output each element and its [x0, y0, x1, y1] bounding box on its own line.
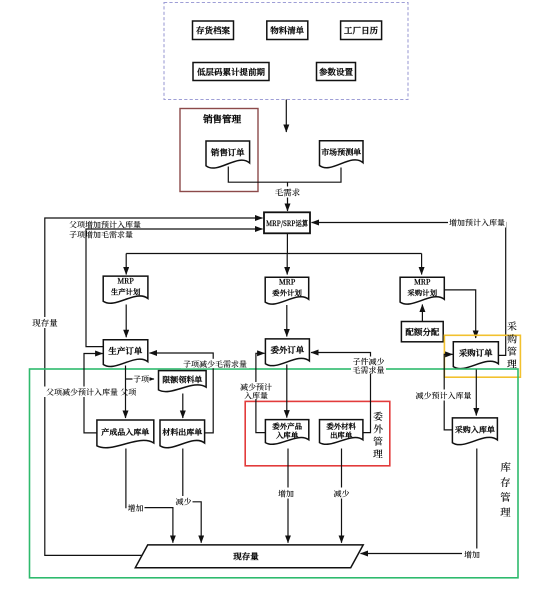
svg-text:MRP: MRP — [117, 277, 135, 287]
svg-text:增加预计入库量: 增加预计入库量 — [449, 218, 505, 229]
label 减少 — [175, 496, 193, 508]
svg-text:销售订单: 销售订单 — [210, 147, 246, 159]
wire: 采购入库单 down to 现存量 (增加) — [361, 449, 477, 554]
document 生产订单 — [103, 340, 148, 367]
svg-text:销售管理: 销售管理 — [203, 112, 242, 126]
svg-text:工厂日历: 工厂日历 — [344, 25, 379, 37]
svg-text:MRP: MRP — [279, 278, 297, 288]
document 委外材料出库单 — [320, 420, 363, 445]
box 低层码累计提前期 — [193, 63, 269, 81]
document MRP生产计划 — [103, 276, 148, 303]
process box MRP/SRP运算 — [264, 212, 310, 233]
label 减少预计 入库量 — [239, 382, 275, 402]
document 材料出库单 — [160, 420, 205, 448]
wire: plan to production order — [125, 305, 127, 338]
wire: purchase order down to purchase receipt — [475, 370, 477, 416]
svg-text:限额领料单: 限额领料单 — [162, 375, 202, 386]
green inventory group box — [30, 369, 519, 578]
svg-text:增加: 增加 — [464, 550, 480, 561]
document 采购订单 — [453, 342, 498, 369]
svg-text:MRP/SRP运算: MRP/SRP运算 — [266, 218, 308, 229]
document 委外订单 — [265, 339, 309, 366]
parallelogram 现存量 — [135, 545, 363, 568]
svg-text:物料清单: 物料清单 — [270, 25, 305, 37]
svg-text:生产计划: 生产计划 — [110, 288, 141, 298]
svg-text:存: 存 — [500, 475, 511, 490]
document 销售订单 — [206, 141, 250, 168]
document 市场预测单 — [320, 141, 364, 168]
wire: plan to outsourcing order — [286, 305, 288, 337]
wire: purchase receipt feedback to purchase order (减少预计入库量) — [444, 354, 452, 430]
label 增加 — [127, 503, 145, 515]
svg-text:子项减少毛需求量: 子项减少毛需求量 — [183, 359, 247, 370]
svg-text:理: 理 — [500, 505, 511, 520]
wire: 限额领料单 to 材料出库单 — [182, 394, 184, 419]
wire: purchase order feedback into MRP right (增加预计入库量) — [312, 223, 506, 356]
wire: 委外订单 down to 委外产品入库单 — [286, 365, 288, 418]
svg-text:材料出库单: 材料出库单 — [162, 427, 202, 438]
label 父项减少预计入库量 父项 — [44, 387, 136, 399]
svg-text:入库量: 入库量 — [244, 390, 268, 401]
svg-text:入库单: 入库单 — [275, 430, 299, 441]
wire: gross demand down arrow into MRP/SRP box — [287, 182, 289, 211]
label 减少预计入库量 — [414, 390, 473, 402]
document 采购入库单 — [452, 418, 497, 445]
label 子项减少毛需求量 — [181, 359, 249, 370]
label 毛需求 — [272, 187, 303, 199]
svg-text:子项增加毛需求量: 子项增加毛需求量 — [69, 230, 133, 241]
svg-text:现存量: 现存量 — [32, 317, 58, 329]
svg-text:理: 理 — [373, 446, 384, 461]
svg-text:父项减少预计入库量 父项: 父项减少预计入库量 父项 — [46, 387, 136, 398]
wire: 产成品入库单 down to 现存量 (增加) — [126, 449, 173, 543]
svg-text:毛需求量: 毛需求量 — [353, 365, 385, 376]
wire: quota allocation up into purchase plan — [421, 305, 423, 322]
svg-text:库: 库 — [500, 460, 511, 475]
document 产成品入库单 — [97, 420, 154, 448]
wire: production order child gross demand into MRP (left line 2) — [86, 229, 263, 347]
dashed basic-data group box — [164, 3, 408, 100]
label 子件减少 毛需求量 — [351, 356, 386, 376]
svg-text:管: 管 — [500, 490, 511, 505]
svg-text:采购订单: 采购订单 — [459, 347, 494, 359]
wire: finished goods receipt feedback to production order (父项减少预计入库量) — [84, 354, 103, 433]
wire: dashed box to gross demand area (short down arrow) — [285, 100, 287, 133]
wire: outsourcing material issue feedback to 委外订单 (子件减少毛需求量) — [311, 353, 371, 433]
svg-text:采购计划: 采购计划 — [407, 289, 438, 299]
label 增加预计入库量 — [448, 217, 506, 229]
document 委外产品入库单 — [265, 420, 308, 445]
svg-text:减少: 减少 — [334, 489, 350, 500]
svg-text:出库单: 出库单 — [330, 430, 353, 441]
svg-text:配额分配: 配额分配 — [405, 326, 440, 338]
svg-text:委外订单: 委外订单 — [270, 344, 305, 356]
box 配额分配 — [401, 322, 443, 342]
svg-text:减少: 减少 — [176, 497, 192, 508]
svg-text:存货档案: 存货档案 — [196, 25, 231, 37]
wire: MRP output bus to three plans — [126, 233, 421, 253]
svg-text:委外计划: 委外计划 — [271, 289, 302, 299]
svg-text:增加: 增加 — [278, 489, 294, 500]
vertical label 库存管理 — [500, 460, 511, 520]
svg-text:MRP: MRP — [414, 278, 432, 288]
svg-text:子项: 子项 — [133, 374, 149, 385]
wire: purchase plan right to purchase order — [444, 290, 475, 338]
wire: material issue feedback to production order (子项减少毛需求量) — [150, 353, 214, 433]
svg-text:生产订单: 生产订单 — [108, 345, 143, 357]
svg-text:增加: 增加 — [128, 503, 144, 514]
red outsourcing group box — [245, 401, 390, 465]
svg-text:产成品入库单: 产成品入库单 — [100, 427, 149, 438]
box 参数设置 — [317, 63, 356, 81]
wire: 委外产品入库单 down to 现存量 (增加) — [287, 449, 289, 543]
svg-text:市场预测单: 市场预测单 — [320, 147, 361, 158]
yellow purchasing group box — [444, 335, 520, 377]
label 子项 — [133, 374, 150, 385]
wire: 材料出库单 down to 现存量 (减少) — [183, 449, 201, 543]
svg-text:毛需求: 毛需求 — [274, 187, 301, 199]
sales management group box 销售管理 — [180, 109, 258, 192]
wire: inventory feedback into MRP (left line 1) — [45, 218, 263, 555]
document MRP委外计划 — [265, 277, 309, 304]
label 现存量 (on left vertical) — [32, 317, 58, 329]
wire: 委外材料出库单 down to 现存量 (减少) — [341, 449, 343, 543]
svg-text:采购入库单: 采购入库单 — [454, 425, 495, 436]
wire: outsourcing product receipt feedback to 委外订单 (减少预计入库量) — [256, 353, 266, 432]
box 存货档案 — [193, 21, 234, 40]
wire: sales order down to gross-demand bus — [228, 167, 341, 183]
vertical label 委外管理 — [373, 408, 384, 461]
svg-text:参数设置: 参数设置 — [318, 66, 354, 78]
box 工厂日历 — [341, 21, 382, 40]
vertical label 采购管理 — [507, 318, 518, 371]
svg-text:减少预计入库量: 减少预计入库量 — [416, 391, 472, 402]
svg-text:低层码累计提前期: 低层码累计提前期 — [196, 66, 266, 78]
document 限额领料单 — [159, 371, 207, 392]
svg-text:现存量: 现存量 — [232, 551, 259, 563]
box 物料清单 — [267, 21, 308, 40]
document MRP采购计划 — [400, 277, 444, 304]
wire: production order down + branch to 限额领料单 — [125, 366, 127, 419]
